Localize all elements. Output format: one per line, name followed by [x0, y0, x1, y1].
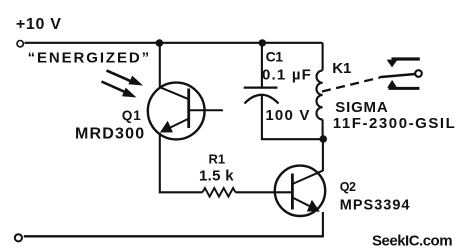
relay contact dashed link [322, 78, 380, 92]
svg-text:SIGMA: SIGMA [335, 99, 388, 116]
label C1 [266, 49, 284, 65]
label MPS3394 [340, 197, 411, 213]
phototransistor Q1 [148, 83, 223, 140]
label Q1 [122, 108, 142, 123]
wire top rail [25, 42, 323, 44]
label 100 V [265, 107, 310, 124]
wire K1 bottom [322, 120, 324, 140]
light arrow 1 [107, 71, 144, 86]
label "ENERGIZED" [28, 50, 151, 67]
svg-text:1.5 k: 1.5 k [199, 168, 234, 185]
label MRD300 [75, 126, 145, 143]
wire C1 bottom [262, 96, 323, 140]
label 0.1 µF [262, 67, 312, 84]
svg-text:MRD300: MRD300 [75, 126, 145, 143]
capacitor C1 [244, 88, 279, 104]
terminal top-left [17, 41, 23, 47]
light arrow 2 [102, 82, 137, 98]
label R1 [209, 151, 226, 166]
relay contact pole pivot [415, 70, 422, 77]
node junction C1/K1/Q2 collector [319, 135, 327, 143]
label SIGMA [335, 99, 388, 116]
svg-text:100 V: 100 V [265, 107, 310, 124]
resistor R1 [203, 188, 236, 197]
svg-text:R1: R1 [209, 151, 226, 166]
svg-text:C1: C1 [266, 49, 284, 65]
svg-text:“ENERGIZED”: “ENERGIZED” [28, 50, 151, 67]
svg-text:MPS3394: MPS3394 [340, 197, 411, 213]
wire C1 top [261, 43, 263, 87]
svg-text:K1: K1 [332, 60, 351, 77]
wire R1 to Q2 base [236, 191, 293, 193]
watermark SeekIC.com [372, 232, 452, 249]
wire Q1 collector [159, 43, 161, 88]
relay coil K1 [316, 71, 322, 120]
wire Q2 emitter down [322, 212, 324, 236]
transistor Q2 [275, 166, 325, 216]
wire Q2 collector [322, 139, 324, 171]
relay contact fixed top [387, 59, 420, 67]
svg-text:11F-2300-GSIL: 11F-2300-GSIL [333, 115, 457, 132]
label 11F-2300-GSIL [333, 115, 457, 132]
svg-text:+10 V: +10 V [16, 16, 62, 33]
label K1 [332, 60, 351, 77]
svg-text:Q2: Q2 [340, 180, 356, 194]
wire K1 top [322, 43, 324, 71]
wire Q1 emitter down [160, 133, 203, 192]
svg-text:Q1: Q1 [122, 108, 142, 123]
wire bottom rail [24, 235, 324, 237]
relay contact pole blade [380, 74, 416, 77]
label 1.5 k [199, 168, 234, 185]
label +10 V [16, 16, 62, 33]
terminal bottom-left [15, 234, 22, 241]
svg-text:0.1 µF: 0.1 µF [262, 67, 312, 84]
node junction top rail / C1 [259, 39, 266, 46]
node junction top rail / Q1 collector [156, 39, 164, 47]
relay contact fixed bottom [387, 80, 419, 89]
label Q2 [340, 180, 356, 194]
svg-text:SeekIC.com: SeekIC.com [372, 232, 452, 249]
